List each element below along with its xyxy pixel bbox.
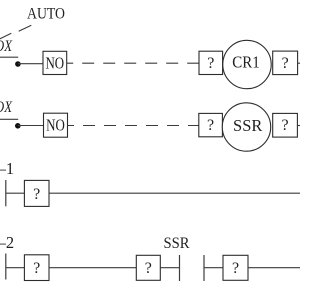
contact CR1-2 right pole: [5, 254, 7, 280]
wire contact to box 1 rung 4: [6, 267, 25, 269]
svg-text:?: ?: [207, 117, 214, 134]
wire SSR contact to box3: [204, 267, 223, 269]
dashed wire rung 1: [67, 62, 199, 64]
unknown box ?3 rung 4: [223, 255, 248, 280]
wire rung 4 to right edge: [248, 267, 300, 269]
NO box rung 1: [43, 51, 67, 74]
unknown box ?1 rung 4: [24, 255, 49, 281]
contact SSR left pole: [179, 255, 181, 281]
junction dot rung 2: [15, 123, 21, 129]
junction dot rung 1: [15, 61, 21, 67]
svg-text:AUTO: AUTO: [27, 6, 65, 23]
NO box rung 2: [44, 113, 68, 137]
relay coil CR1: [223, 40, 271, 88]
svg-text:OX: OX: [0, 99, 12, 116]
svg-text:?: ?: [33, 186, 40, 203]
selector switch terminal line: [0, 56, 18, 58]
svg-text:?: ?: [232, 260, 239, 277]
svg-text:OX: OX: [0, 38, 12, 55]
switch terminal line rung 2: [0, 118, 18, 120]
dashed wire rung 2: [68, 125, 199, 127]
svg-text:–2: –2: [0, 233, 14, 252]
wire stub right rung 1: [298, 62, 300, 64]
svg-text:?: ?: [281, 117, 288, 134]
unknown box ?1 rung 1: [199, 51, 223, 74]
wire stub right rung 2: [297, 125, 300, 127]
contact CR1-1 right pole: [5, 180, 7, 206]
svg-text:CR1: CR1: [232, 53, 260, 72]
relay coil SSR: [222, 103, 270, 151]
svg-text:?: ?: [207, 55, 214, 72]
svg-text:NO: NO: [45, 54, 64, 73]
wire box2 to SSR contact: [160, 267, 179, 269]
contact SSR right pole: [203, 255, 205, 281]
unknown box ? rung 3: [24, 180, 49, 206]
svg-text:SSR: SSR: [233, 116, 262, 135]
wire dot to NO box: [18, 63, 43, 65]
svg-text:NO: NO: [46, 116, 65, 135]
wire rung 3 to right edge: [49, 192, 300, 194]
unknown box ?2 rung 1: [273, 51, 298, 75]
svg-text:?: ?: [282, 55, 289, 72]
unknown box ?2 rung 2: [273, 113, 298, 137]
svg-text:SSR: SSR: [164, 235, 191, 252]
wire box1 to box2 rung 4: [49, 267, 136, 269]
unknown box ?1 rung 2: [199, 113, 223, 136]
unknown box ?2 rung 4: [136, 255, 160, 280]
selector switch blade (dashed diagonal to AUTO): [0, 25, 31, 39]
svg-text:?: ?: [145, 260, 152, 277]
wire dot to NO box rung 2: [18, 125, 44, 127]
svg-text:–1: –1: [0, 159, 14, 178]
svg-text:?: ?: [33, 260, 40, 277]
wire contact to box rung 3: [6, 192, 25, 194]
